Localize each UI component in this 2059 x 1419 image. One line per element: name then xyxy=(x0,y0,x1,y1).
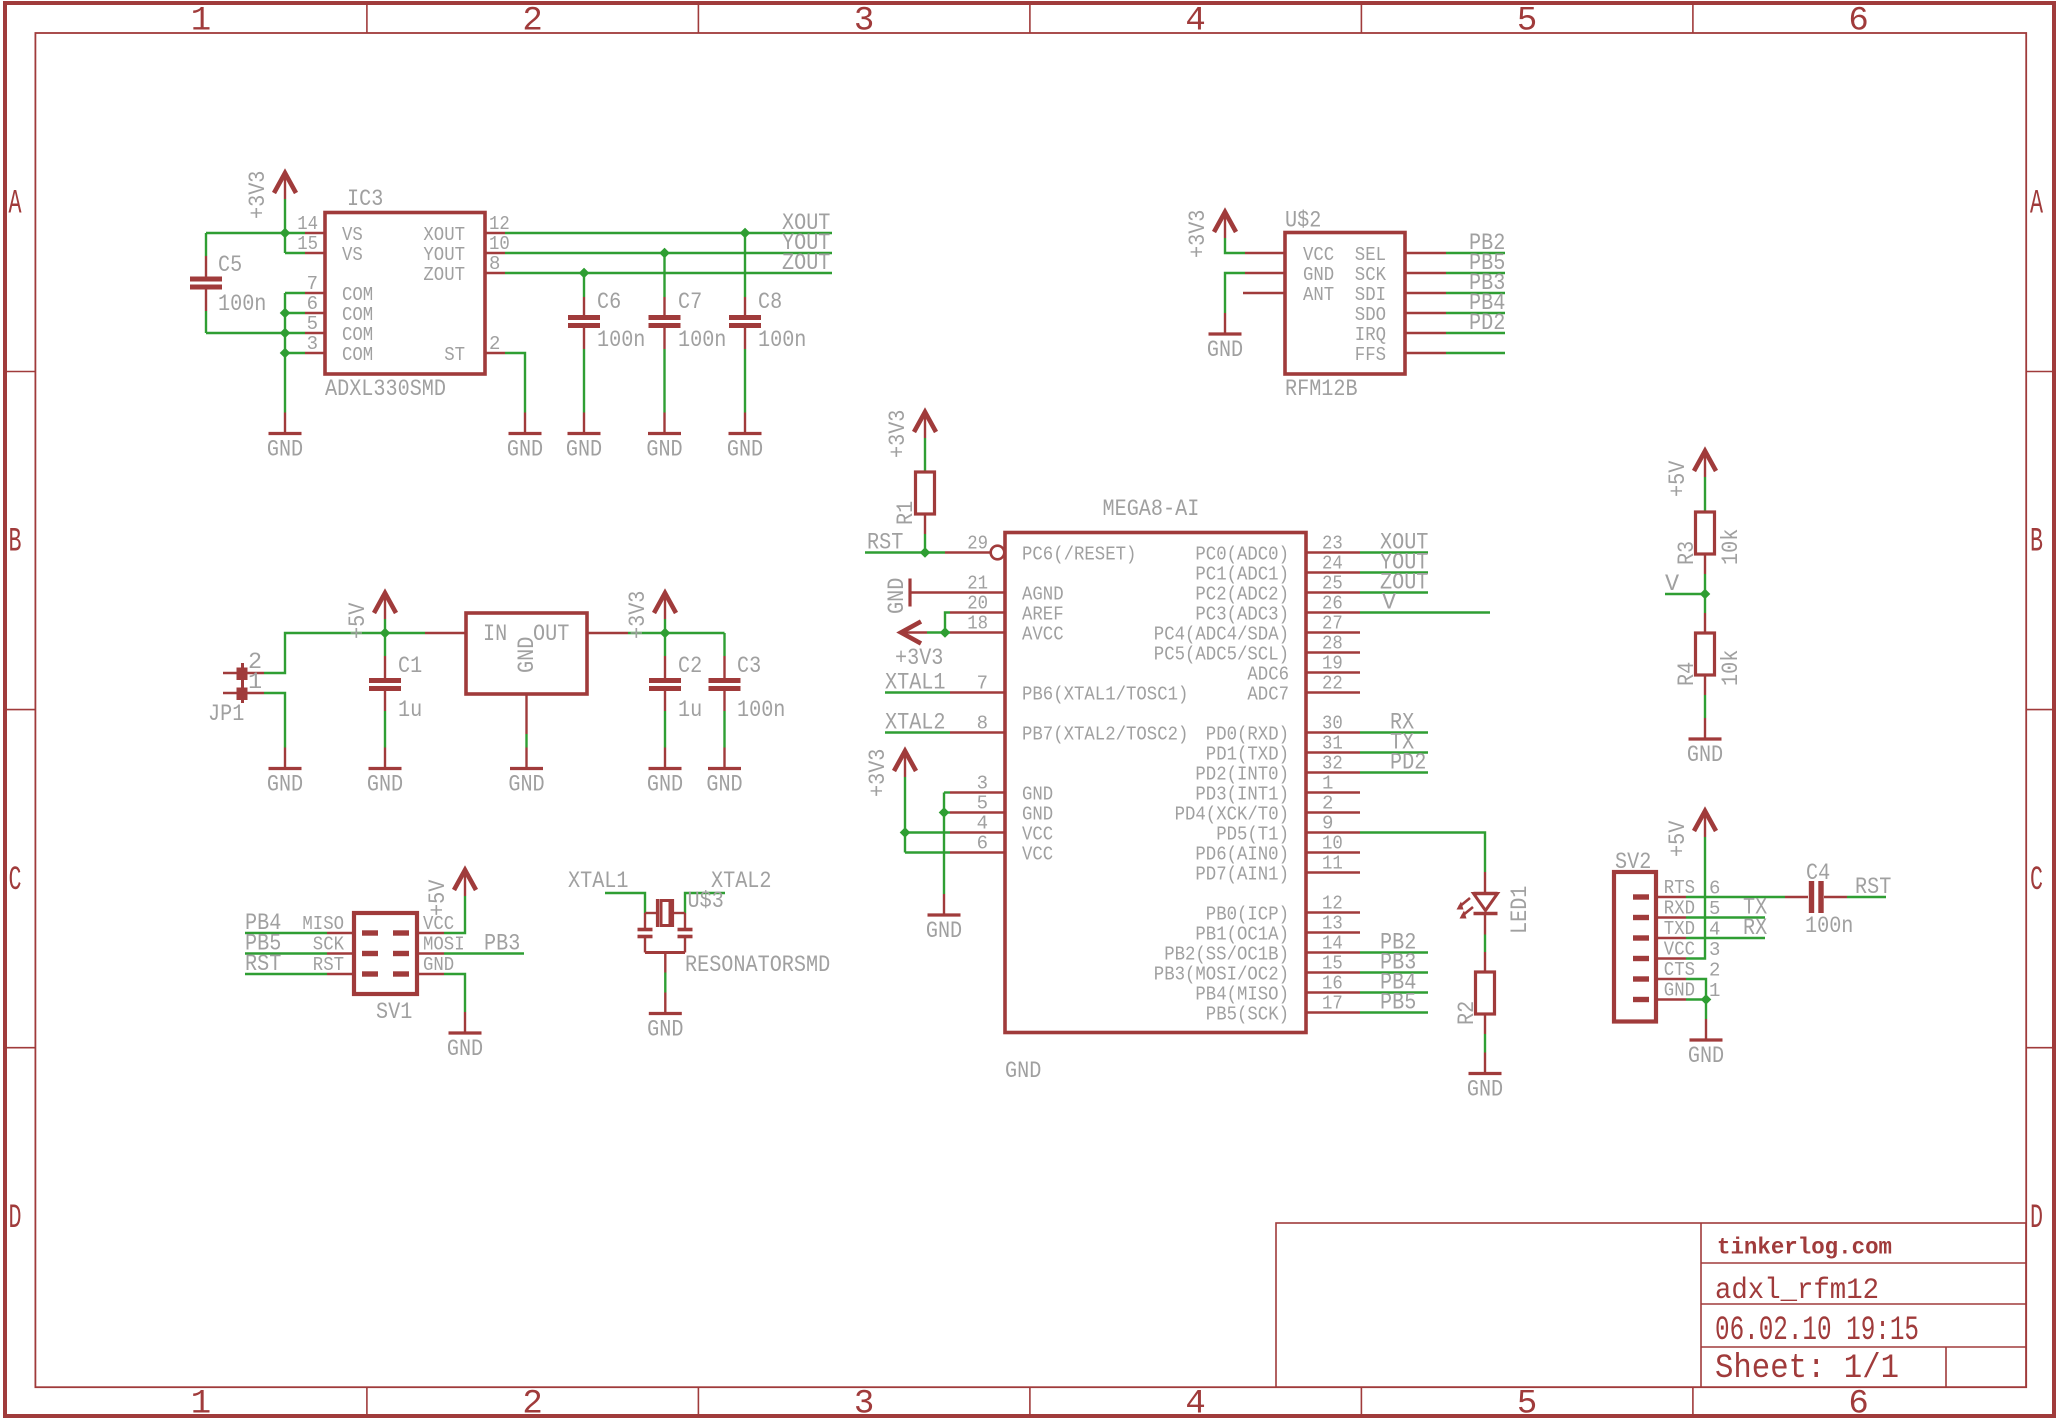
svg-text:11: 11 xyxy=(1322,853,1343,875)
wire net V at MEGA8 xyxy=(1360,611,1490,613)
svg-text:C4: C4 xyxy=(1806,860,1830,887)
wire +3V3 to RFM VCC xyxy=(1225,238,1245,253)
svg-text:22: 22 xyxy=(1322,673,1343,695)
wire AREF-AVCC link xyxy=(945,613,950,633)
svg-text:3: 3 xyxy=(1709,939,1720,961)
MEGA8 pin 12 PB0(ICP) xyxy=(1206,893,1360,926)
IC3 pin 15 VS xyxy=(297,233,363,266)
MEGA8 pin 32 PD2(INT0) xyxy=(1195,753,1360,786)
svg-text:MEGA8-AI: MEGA8-AI xyxy=(1103,496,1200,523)
IC3 pin 2 ST xyxy=(444,333,505,366)
svg-text:6: 6 xyxy=(1848,3,1868,41)
resistor R4 xyxy=(1674,633,1745,686)
wire RFM GND xyxy=(1225,273,1245,313)
ground below C6 xyxy=(583,413,585,434)
MEGA8 pin 24 PC1(ADC1) xyxy=(1195,553,1360,586)
svg-text:12: 12 xyxy=(1322,893,1343,915)
svg-text:PB6(XTAL1/TOSC1): PB6(XTAL1/TOSC1) xyxy=(1022,684,1188,706)
ground below JP1 xyxy=(284,748,286,769)
wire RST net xyxy=(865,551,945,553)
svg-text:GND: GND xyxy=(1687,742,1723,769)
svg-text:PB4(MISO): PB4(MISO) xyxy=(1195,984,1289,1006)
MEGA8 pin 13 PB1(OC1A) xyxy=(1195,913,1360,946)
supply +5V on rail xyxy=(374,593,396,613)
MEGA8 pin 31 PD1(TXD) xyxy=(1206,733,1360,766)
supply +3V3 arrow left at AVCC xyxy=(895,622,943,673)
MEGA8 pin 30 PD0(RXD) xyxy=(1206,713,1360,746)
SV1 pin VCC right xyxy=(417,913,454,935)
svg-text:SV1: SV1 xyxy=(376,999,412,1026)
svg-text:C2: C2 xyxy=(678,653,702,680)
junction V node xyxy=(1700,589,1709,598)
svg-text:R4: R4 xyxy=(1674,662,1701,686)
capacitor C5 xyxy=(190,233,285,333)
wire net XOUT at MEGA8 xyxy=(1360,551,1428,553)
wire +5V to R3 xyxy=(1704,477,1706,512)
RFM12B pin FFS xyxy=(1355,344,1446,366)
svg-text:SDO: SDO xyxy=(1355,304,1386,326)
MEGA8 pin 7 PB6(XTAL1/TOSC1) xyxy=(950,673,1188,706)
capacitor C6 xyxy=(568,273,645,413)
SV1 pin SCK left xyxy=(313,934,354,956)
svg-text:100n: 100n xyxy=(1805,913,1853,940)
ground below MEGA8 GND pins xyxy=(943,894,945,915)
svg-text:7: 7 xyxy=(977,673,988,695)
MEGA8 pin 3 GND xyxy=(950,773,1053,806)
svg-text:ADC7: ADC7 xyxy=(1247,684,1289,706)
svg-text:9: 9 xyxy=(1322,813,1333,835)
RFM12B pin IRQ xyxy=(1355,324,1446,346)
wire OUT to +3V3 rail xyxy=(628,632,725,634)
supply +3V3 above VCC pins xyxy=(894,751,916,771)
svg-text:ADXL330SMD: ADXL330SMD xyxy=(325,376,446,403)
svg-text:+3V3: +3V3 xyxy=(625,591,652,639)
junction XOUT-C8 xyxy=(740,228,749,237)
svg-text:+3V3: +3V3 xyxy=(895,645,943,672)
ground below R2 xyxy=(1484,1053,1486,1074)
MEGA8 pin 19 ADC6 xyxy=(1247,653,1360,686)
SV2 pin 1 GND xyxy=(1656,980,1720,1003)
svg-text:100n: 100n xyxy=(737,697,785,724)
svg-text:PD3(INT1): PD3(INT1) xyxy=(1195,784,1289,806)
svg-text:PC5(ADC5/SCL): PC5(ADC5/SCL) xyxy=(1154,644,1289,666)
svg-text:1: 1 xyxy=(191,1386,211,1419)
svg-text:VS: VS xyxy=(342,224,363,246)
wire net PB3 at SV1 xyxy=(444,952,524,954)
svg-text:2: 2 xyxy=(522,1386,542,1419)
wire net XTAL1 at MEGA8 xyxy=(885,691,950,693)
junction AVCC node xyxy=(940,628,949,637)
ground below R4 xyxy=(1704,718,1706,739)
svg-text:VCC: VCC xyxy=(1303,244,1334,266)
SV2 pin 3 VCC xyxy=(1656,939,1720,962)
svg-text:12: 12 xyxy=(489,213,510,235)
svg-text:ST: ST xyxy=(444,344,465,366)
svg-text:ANT: ANT xyxy=(1303,284,1334,306)
svg-text:PB3(MOSI/OC2): PB3(MOSI/OC2) xyxy=(1154,964,1289,986)
svg-text:A: A xyxy=(2030,186,2043,224)
svg-text:PC4(ADC4/SDA): PC4(ADC4/SDA) xyxy=(1154,624,1289,646)
svg-text:18: 18 xyxy=(967,613,988,635)
wire GND pins chain xyxy=(944,793,950,895)
svg-text:14: 14 xyxy=(297,213,318,235)
junction YOUT-C7 xyxy=(660,248,669,257)
wire net PB5 SCK xyxy=(1446,272,1505,274)
ground below resonator xyxy=(664,993,666,1014)
svg-text:ZOUT: ZOUT xyxy=(782,250,830,277)
junction SV2 GND node xyxy=(1701,995,1710,1004)
MEGA8 pin 21 AGND xyxy=(950,573,1064,606)
svg-text:B: B xyxy=(9,524,22,562)
junction VCC pin4 xyxy=(900,828,909,837)
regulator OUT pin xyxy=(587,632,628,634)
wire R2 to ground xyxy=(1484,1014,1486,1053)
capacitor C1 xyxy=(369,633,422,748)
wire +3V3 to IC3 VS pins xyxy=(285,199,305,253)
wire net TX at SV2 xyxy=(1686,916,1765,918)
IC3 pin 3 COM xyxy=(305,333,373,366)
svg-text:GND: GND xyxy=(1005,1058,1041,1085)
svg-text:C1: C1 xyxy=(398,653,422,680)
svg-text:GND: GND xyxy=(447,1036,483,1063)
svg-text:PB5(SCK): PB5(SCK) xyxy=(1206,1004,1289,1026)
wire net RST at C4 xyxy=(1847,896,1886,898)
resonator U$3 xyxy=(638,888,831,979)
svg-text:14: 14 xyxy=(1322,933,1343,955)
svg-text:U$3: U$3 xyxy=(688,888,724,915)
MEGA8 pin 15 PB3(MOSI/OC2) xyxy=(1154,953,1360,986)
svg-text:PD5(T1): PD5(T1) xyxy=(1216,824,1289,846)
wire net PB4 at MEGA8 xyxy=(1360,991,1428,993)
wire SV2 GND xyxy=(1686,998,1706,1000)
svg-text:AREF: AREF xyxy=(1022,604,1064,626)
wire AVCC to +3V3 xyxy=(927,631,950,633)
svg-text:GND: GND xyxy=(1467,1077,1503,1104)
wire +3V3 stem xyxy=(664,619,666,633)
svg-text:1u: 1u xyxy=(678,697,702,724)
wire SV2 GND down xyxy=(1705,1000,1707,1020)
junction COM 5 xyxy=(280,328,289,337)
wire net YOUT at MEGA8 xyxy=(1360,571,1428,573)
RFM12B pin SCK xyxy=(1355,264,1446,286)
wire R1 to RST node xyxy=(924,514,926,553)
capacitor C4 xyxy=(1785,860,1853,940)
MEGA8 pin 20 AREF xyxy=(950,593,1064,626)
svg-text:10k: 10k xyxy=(1718,529,1745,565)
wire net PB4 SDO xyxy=(1446,312,1505,314)
frame row ticks left xyxy=(5,372,36,1048)
svg-text:1: 1 xyxy=(1709,980,1720,1002)
svg-text:21: 21 xyxy=(967,573,988,595)
svg-text:PB5: PB5 xyxy=(1380,990,1416,1017)
wire net PB3 at MEGA8 xyxy=(1360,971,1428,973)
svg-text:adxl_rfm12: adxl_rfm12 xyxy=(1715,1274,1879,1308)
MEGA8 pin 27 PC4(ADC4/SDA) xyxy=(1154,613,1360,646)
SV1 pin MOSI right xyxy=(417,934,465,956)
resistor R3 xyxy=(1674,512,1745,565)
svg-text:25: 25 xyxy=(1322,573,1343,595)
ground below SV2 xyxy=(1705,1019,1707,1040)
svg-text:2: 2 xyxy=(489,333,500,355)
ground below SV1 xyxy=(464,1012,466,1033)
wire net XTAL2 at MEGA8 xyxy=(885,731,950,733)
SV2 pin 4 TXD xyxy=(1656,918,1720,941)
regulator GND pin xyxy=(525,694,527,734)
svg-text:31: 31 xyxy=(1322,733,1343,755)
svg-text:PD7(AIN1): PD7(AIN1) xyxy=(1195,864,1289,886)
IC3 pin 12 XOUT xyxy=(423,213,509,246)
svg-text:SCK: SCK xyxy=(313,934,345,956)
svg-text:SCK: SCK xyxy=(1355,264,1387,286)
wire net PD2 at MEGA8 xyxy=(1360,771,1428,773)
SV1 pin RST left xyxy=(313,954,354,976)
svg-text:C8: C8 xyxy=(758,289,782,316)
MEGA8 pin 29 PC6(/RESET) xyxy=(945,533,1136,566)
svg-text:GND: GND xyxy=(267,437,303,464)
MEGA8 pin 16 PB4(MISO) xyxy=(1195,973,1360,1006)
IC3 pin 14 VS xyxy=(297,213,363,246)
junction +5V rail C1 xyxy=(380,628,389,637)
junction VS node xyxy=(280,228,289,237)
svg-text:GND: GND xyxy=(514,637,541,673)
svg-text:VCC: VCC xyxy=(1022,824,1053,846)
svg-text:RST: RST xyxy=(867,530,903,557)
svg-text:R2: R2 xyxy=(1454,1001,1481,1025)
svg-text:GND: GND xyxy=(267,772,303,799)
wire net PB4 at SV1 xyxy=(245,932,327,934)
svg-text:16: 16 xyxy=(1322,973,1343,995)
MEGA8 pin 10 PD6(AIN0) xyxy=(1195,833,1360,866)
svg-text:24: 24 xyxy=(1322,553,1343,575)
svg-text:PB0(ICP): PB0(ICP) xyxy=(1206,904,1289,926)
IC U$2 RFM12B body xyxy=(1285,208,1405,404)
wire net PB2 at MEGA8 xyxy=(1360,951,1428,953)
ground below C2 xyxy=(664,748,666,769)
svg-text:GND: GND xyxy=(926,918,962,945)
svg-text:1: 1 xyxy=(191,3,211,41)
svg-text:23: 23 xyxy=(1322,533,1343,555)
svg-text:RFM12B: RFM12B xyxy=(1285,376,1358,403)
svg-text:+3V3: +3V3 xyxy=(865,749,892,797)
wire net PB2 SEL xyxy=(1446,252,1505,254)
svg-text:GND: GND xyxy=(1022,804,1053,826)
svg-text:RESONATORSMD: RESONATORSMD xyxy=(685,952,830,979)
regulator IN pin xyxy=(425,632,466,634)
svg-text:PC6(/RESET): PC6(/RESET) xyxy=(1022,544,1136,566)
svg-text:U$2: U$2 xyxy=(1285,208,1321,235)
SV2 pin 6 RTS xyxy=(1656,877,1720,900)
svg-text:2: 2 xyxy=(522,3,542,41)
svg-text:XTAL1: XTAL1 xyxy=(568,868,629,895)
svg-text:2: 2 xyxy=(1322,793,1333,815)
svg-text:6: 6 xyxy=(977,833,988,855)
frame row labels right xyxy=(2030,186,2043,1239)
frame row ticks right xyxy=(2026,372,2054,1048)
wire XOUT net xyxy=(505,232,832,234)
svg-text:RXD: RXD xyxy=(1664,898,1695,920)
svg-text:+5V: +5V xyxy=(425,880,452,916)
svg-text:C: C xyxy=(2030,862,2043,900)
junction +3V3 rail C2 xyxy=(660,628,669,637)
IC3 pin 8 ZOUT xyxy=(423,253,505,286)
svg-text:4: 4 xyxy=(1185,1386,1205,1419)
svg-text:PD4(XCK/T0): PD4(XCK/T0) xyxy=(1175,804,1289,826)
svg-text:19: 19 xyxy=(1322,653,1343,675)
supply +5V above R3 xyxy=(1694,451,1716,471)
svg-text:ZOUT: ZOUT xyxy=(423,264,465,286)
MEGA8 pin 17 PB5(SCK) xyxy=(1206,993,1360,1026)
svg-text:13: 13 xyxy=(1322,913,1343,935)
MEGA8 pin 9 PD5(T1) xyxy=(1216,813,1360,846)
svg-text:XTAL2: XTAL2 xyxy=(885,710,946,737)
MEGA8 pin 26 PC3(ADC3) xyxy=(1195,593,1360,626)
wire JP1 pin2 to +5V rail xyxy=(264,633,425,673)
svg-text:GND: GND xyxy=(507,437,543,464)
junction COM 6 xyxy=(280,308,289,317)
svg-text:PD6(AIN0): PD6(AIN0) xyxy=(1195,844,1289,866)
SV1 pin GND right xyxy=(417,954,454,976)
wire SV1 VCC to +5V xyxy=(444,896,465,933)
svg-text:tinkerlog.com: tinkerlog.com xyxy=(1717,1235,1892,1261)
ground below RFM12B xyxy=(1224,313,1226,334)
svg-text:PC1(ADC1): PC1(ADC1) xyxy=(1195,564,1289,586)
svg-text:GND: GND xyxy=(508,772,544,799)
IC3 pin 7 COM xyxy=(305,273,373,306)
svg-text:+5V: +5V xyxy=(1665,461,1692,497)
svg-text:1u: 1u xyxy=(398,697,422,724)
svg-text:JP1: JP1 xyxy=(208,701,244,728)
svg-text:C6: C6 xyxy=(597,289,621,316)
svg-text:COM: COM xyxy=(342,304,373,326)
SV2 pin 5 RXD xyxy=(1656,898,1720,921)
svg-text:PB1(OC1A): PB1(OC1A) xyxy=(1195,924,1289,946)
svg-text:32: 32 xyxy=(1322,753,1343,775)
wire net PD2 IRQ xyxy=(1446,332,1505,334)
capacitor C7 xyxy=(649,253,727,413)
supply +5V above SV1 xyxy=(454,870,476,890)
svg-text:8: 8 xyxy=(977,713,988,735)
svg-text:28: 28 xyxy=(1322,633,1343,655)
svg-text:1: 1 xyxy=(1322,773,1333,795)
svg-text:PD1(TXD): PD1(TXD) xyxy=(1206,744,1289,766)
connector JP1 xyxy=(208,649,264,728)
svg-text:VS: VS xyxy=(342,244,363,266)
svg-text:SV2: SV2 xyxy=(1615,849,1651,876)
svg-text:IRQ: IRQ xyxy=(1355,324,1386,346)
RFM12B pin ANT xyxy=(1243,284,1334,306)
svg-text:IC3: IC3 xyxy=(347,186,383,213)
svg-text:100n: 100n xyxy=(597,327,645,354)
wire net PB5 at SV1 xyxy=(245,952,327,954)
wire R3 to V node xyxy=(1704,554,1706,594)
svg-text:3: 3 xyxy=(307,333,318,355)
svg-text:3: 3 xyxy=(854,1386,874,1419)
svg-text:27: 27 xyxy=(1322,613,1343,635)
svg-text:AVCC: AVCC xyxy=(1022,624,1064,646)
svg-text:C: C xyxy=(9,862,22,900)
wire net PB3 SDI xyxy=(1446,292,1505,294)
wire V node to R4 xyxy=(1704,594,1706,633)
ground symbol at AGND xyxy=(884,578,950,614)
svg-text:GND: GND xyxy=(1688,1043,1724,1070)
wire net TX at MEGA8 xyxy=(1360,751,1428,753)
capacitor C3 xyxy=(709,633,786,748)
LED LED1 xyxy=(1457,872,1535,935)
wire net FFS xyxy=(1446,352,1505,354)
svg-text:VCC: VCC xyxy=(1022,844,1053,866)
MEGA8 pin 6 VCC xyxy=(950,833,1053,866)
IC3 pin 10 YOUT xyxy=(423,233,509,266)
connector SV2 body xyxy=(1614,849,1656,1022)
svg-text:B: B xyxy=(2030,524,2043,562)
MEGA8 pin 5 GND xyxy=(950,793,1053,826)
wire ZOUT net xyxy=(505,272,832,274)
ground below C1 xyxy=(384,748,386,769)
svg-text:CTS: CTS xyxy=(1664,959,1695,981)
svg-text:4: 4 xyxy=(1185,3,1205,41)
svg-text:+5V: +5V xyxy=(1665,821,1692,857)
svg-text:4: 4 xyxy=(977,813,988,835)
svg-text:D: D xyxy=(9,1200,22,1238)
RFM12B pin GND xyxy=(1245,264,1334,286)
svg-text:PB7(XTAL2/TOSC2): PB7(XTAL2/TOSC2) xyxy=(1022,724,1188,746)
MEGA8 pin 14 PB2(SS/OC1B) xyxy=(1164,933,1360,966)
svg-text:A: A xyxy=(9,186,22,224)
ground below C3 xyxy=(723,748,725,769)
wire net PB5 at MEGA8 xyxy=(1360,1011,1428,1013)
svg-text:7: 7 xyxy=(307,273,318,295)
svg-text:GND: GND xyxy=(1664,980,1695,1002)
svg-text:10k: 10k xyxy=(1718,650,1745,686)
svg-text:26: 26 xyxy=(1322,593,1343,615)
svg-text:AGND: AGND xyxy=(1022,584,1064,606)
svg-text:GND: GND xyxy=(423,954,454,976)
wire net RX at MEGA8 xyxy=(1360,731,1428,733)
title block frame xyxy=(1276,1223,2026,1387)
wire resonator to ground xyxy=(664,973,666,993)
wire RTS to C4 xyxy=(1686,896,1785,898)
MEGA8 pin 4 VCC xyxy=(950,813,1053,846)
svg-text:PB2(SS/OC1B): PB2(SS/OC1B) xyxy=(1164,944,1289,966)
MEGA8 pin 2 PD4(XCK/T0) xyxy=(1175,793,1360,826)
svg-text:GND: GND xyxy=(646,437,682,464)
IC3 pin 6 COM xyxy=(305,293,373,326)
svg-text:SEL: SEL xyxy=(1355,244,1386,266)
MEGA8 pin 18 AVCC xyxy=(950,613,1064,646)
wire +5V to SV2 VCC xyxy=(1686,837,1705,959)
wire +3V3 to VCC pins xyxy=(905,777,950,853)
svg-text:MISO: MISO xyxy=(302,913,344,935)
junction GND pin5 xyxy=(939,808,948,817)
svg-text:COM: COM xyxy=(342,324,373,346)
MEGA8 pin 22 ADC7 xyxy=(1247,673,1360,706)
ground below IC3 left xyxy=(284,413,286,434)
IC IC1 MEGA8-AI body xyxy=(1005,496,1306,1085)
supply +3V3 on rail xyxy=(654,593,676,613)
svg-text:SDI: SDI xyxy=(1355,284,1386,306)
svg-text:10: 10 xyxy=(489,233,510,255)
svg-text:GND: GND xyxy=(706,772,742,799)
svg-text:PD2: PD2 xyxy=(1390,750,1426,777)
junction ZOUT-C6 xyxy=(579,268,588,277)
svg-text:XTAL1: XTAL1 xyxy=(885,670,946,697)
svg-text:IN: IN xyxy=(483,621,507,648)
supply +5V above SV2 xyxy=(1694,811,1716,831)
svg-text:GND: GND xyxy=(1207,337,1243,364)
capacitor C8 xyxy=(729,233,806,413)
resistor R2 xyxy=(1454,972,1495,1025)
wire regulator GND to ground xyxy=(525,734,527,748)
